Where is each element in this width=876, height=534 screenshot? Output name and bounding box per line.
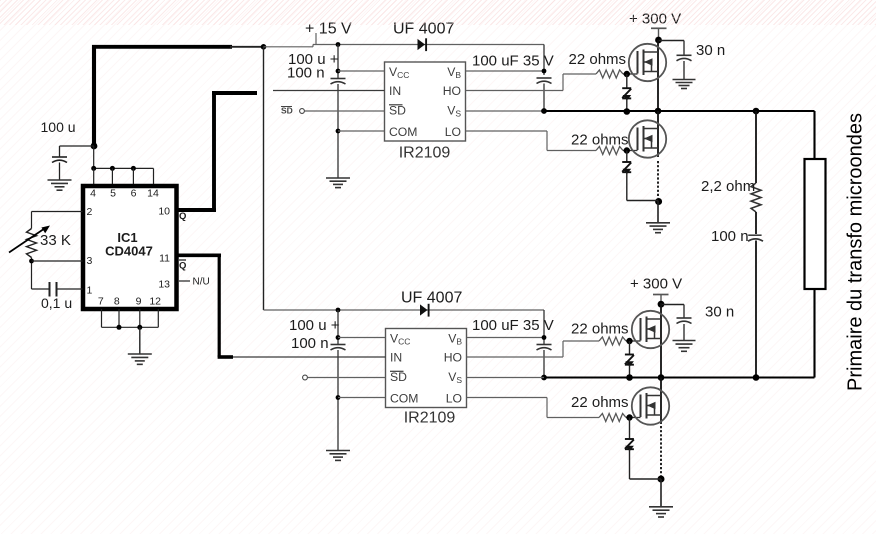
svg-text:2: 2 [87,206,93,218]
svg-text:UF 4007: UF 4007 [401,290,462,307]
svg-text:2,2 ohm: 2,2 ohm [701,178,755,195]
svg-text:12: 12 [149,296,161,308]
svg-text:10: 10 [158,206,170,218]
svg-text:SD: SD [389,104,406,118]
svg-text:30 n: 30 n [705,304,734,321]
svg-text:UF 4007: UF 4007 [393,21,454,38]
svg-text:COM: COM [389,125,417,139]
svg-text:100 n: 100 n [291,335,329,352]
svg-text:CD4047: CD4047 [105,244,153,259]
svg-text:HO: HO [443,84,461,98]
svg-text:IN: IN [389,84,401,98]
svg-text:SD: SD [390,370,407,384]
svg-text:+ 300 V: + 300 V [629,11,681,28]
svg-text:5: 5 [110,188,116,200]
svg-text:Q: Q [179,261,186,272]
svg-text:Q: Q [179,211,186,222]
svg-text:1: 1 [87,285,93,297]
svg-text:33 K: 33 K [40,232,71,249]
svg-text:7: 7 [98,296,104,308]
svg-text:6: 6 [131,188,137,200]
svg-text:LO: LO [446,392,462,406]
svg-text:3: 3 [87,255,93,267]
svg-text:11: 11 [159,253,170,265]
svg-text:22 ohms: 22 ohms [571,321,629,338]
svg-text:14: 14 [147,188,159,200]
svg-text:100 uF 35 V: 100 uF 35 V [472,53,554,70]
svg-text:+ 15 V: + 15 V [305,21,352,38]
svg-text:13: 13 [158,279,170,291]
svg-text:100 n: 100 n [711,228,749,245]
svg-text:22 ohms: 22 ohms [571,132,629,149]
svg-text:IR2109: IR2109 [399,145,451,162]
svg-text:IR2109: IR2109 [404,410,456,427]
svg-text:100 uF 35 V: 100 uF 35 V [472,317,554,334]
svg-text:100 u: 100 u [41,119,76,135]
svg-text:30 n: 30 n [696,42,725,59]
svg-text:22 ohms: 22 ohms [569,51,627,68]
svg-text:100 u +: 100 u + [289,317,340,334]
svg-text:HO: HO [444,351,462,365]
svg-text:COM: COM [390,392,418,406]
svg-text:LO: LO [445,125,461,139]
svg-text:0,1 u: 0,1 u [41,295,72,311]
svg-text:+ 300 V: + 300 V [630,276,682,293]
svg-text:N/U: N/U [193,277,210,288]
svg-text:9: 9 [136,296,142,308]
svg-text:22 ohms: 22 ohms [571,394,629,411]
svg-text:100 n: 100 n [287,65,325,82]
svg-text:Primaire du transfo microondes: Primaire du transfo microondes [844,113,867,391]
svg-text:4: 4 [90,188,96,200]
svg-text:8: 8 [114,296,120,308]
svg-text:IN: IN [390,351,402,365]
